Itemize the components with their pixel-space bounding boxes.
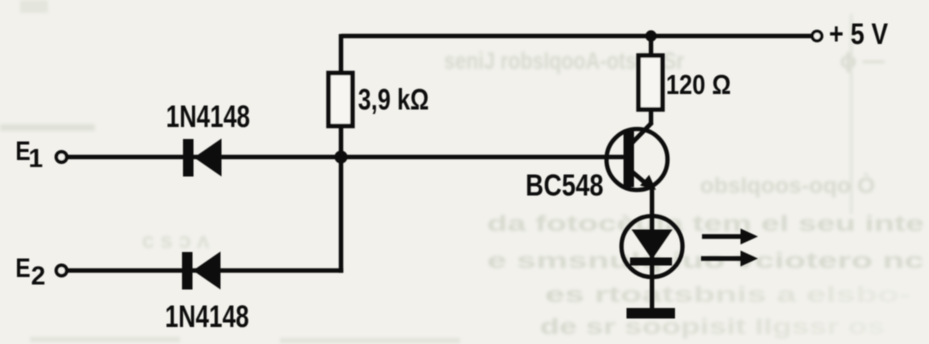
resistor R1 3,9k body <box>329 73 353 126</box>
node A junction on E1 line <box>335 151 348 164</box>
terminal +5V <box>812 31 822 41</box>
svg-text:da fotocèula tem el seu int: da fotocèula tem el seu inte <box>487 211 924 236</box>
wire top +5V rail <box>341 34 816 39</box>
light emission arrow 1 <box>702 229 758 245</box>
svg-text:E: E <box>16 253 31 283</box>
svg-text:obsIqoos-oqo Ò: obsIqoos-oqo Ò <box>700 173 875 198</box>
svg-text:2: 2 <box>31 261 45 291</box>
svg-text:ɸ —: ɸ — <box>840 48 885 73</box>
transistor Q1 BC548 <box>607 123 668 191</box>
svg-text:1N4148: 1N4148 <box>165 298 249 334</box>
wire collector to R2 <box>649 111 654 124</box>
wire left vertical spine top <box>339 34 344 74</box>
svg-text:1: 1 <box>29 143 43 173</box>
svg-text:1N4148: 1N4148 <box>166 98 250 134</box>
diode D2 1N4148 <box>182 252 221 290</box>
wire left vertical spine bottom <box>339 126 344 273</box>
svg-text:c s ɔ ʌ: c s ɔ ʌ <box>142 228 210 253</box>
resistor R2 120 body <box>639 56 663 110</box>
terminal E1 <box>56 152 66 162</box>
svg-text:3,9 kΩ: 3,9 kΩ <box>358 84 429 117</box>
wire R2 to rail <box>649 34 654 56</box>
svg-text:BC548: BC548 <box>526 168 604 203</box>
svg-text:120 Ω: 120 Ω <box>666 69 731 100</box>
diode D1 1N4148 <box>183 139 222 177</box>
svg-text:de sr soopisit IIgssr os: de sr soopisit IIgssr os <box>540 314 885 339</box>
svg-text:es rtoatsbnis a elsbo-: es rtoatsbnis a elsbo- <box>545 282 911 307</box>
wire E1 line <box>66 155 624 160</box>
wire E2 line <box>66 268 343 273</box>
LED D3 <box>622 216 683 277</box>
wire emitter to LED to ground <box>650 188 655 308</box>
terminal E2 <box>56 265 66 275</box>
light emission arrow 2 <box>701 251 758 267</box>
svg-text:+ 5 V: + 5 V <box>829 18 888 51</box>
node junction of 120 ohm branch on +5V rail <box>645 30 656 41</box>
ground <box>627 308 676 319</box>
